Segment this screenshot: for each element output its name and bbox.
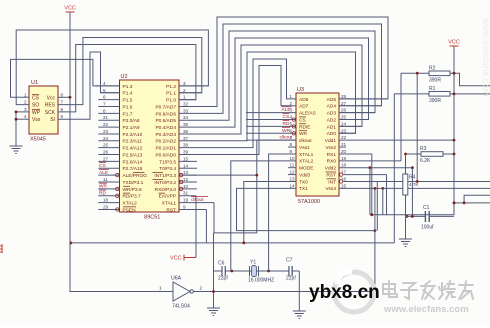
svg-text:27: 27: [341, 101, 347, 106]
IC U1 X5045 watchdog EEPROM: [29, 80, 58, 143]
svg-text:3: 3: [183, 81, 186, 86]
junction dot WP: [15, 111, 18, 114]
svg-text:Y1: Y1: [250, 260, 256, 266]
wire RST branch down: [386, 175, 388, 215]
svg-text:INT1/P3.3: INT1/P3.3: [154, 173, 176, 179]
wire P1.1 to U1 RES: [58, 38, 202, 105]
svg-text:16: 16: [341, 176, 347, 181]
power symbol VCC right: [448, 40, 460, 47]
svg-text:6.2K: 6.2K: [420, 158, 431, 164]
svg-text:21: 21: [103, 115, 109, 120]
svg-text:RD/E: RD/E: [299, 124, 310, 130]
junction dot crystal left: [230, 270, 233, 273]
svg-text:www.elecfans.com: www.elecfans.com: [383, 304, 469, 315]
svg-text:P2.4/A12: P2.4/A12: [123, 146, 143, 152]
ground below C6: [207, 302, 220, 316]
wire Vss3 vertical to ybx line: [374, 188, 376, 290]
svg-text:Vdd3: Vdd3: [299, 172, 311, 178]
svg-text:U1: U1: [31, 80, 38, 86]
svg-text:25: 25: [341, 115, 347, 120]
svg-text:Vss2: Vss2: [325, 145, 336, 151]
svg-text:Vss: Vss: [32, 117, 41, 123]
svg-text:5: 5: [61, 114, 64, 119]
wire R4 bottom to C1 line: [405, 195, 407, 216]
svg-text:33: 33: [183, 108, 189, 113]
wire P1.0 to U1 SCK: [58, 45, 196, 112]
svg-text:AD6: AD6: [299, 97, 309, 103]
svg-text:100uf: 100uf: [421, 225, 434, 231]
svg-text:1: 1: [290, 94, 293, 99]
wire INT branch down: [376, 181, 378, 230]
wire R4 stem up to R3 line: [405, 154, 407, 174]
svg-text:13: 13: [183, 170, 189, 175]
svg-text:P2.5/A13: P2.5/A13: [123, 152, 143, 158]
svg-text:26: 26: [341, 108, 347, 113]
wire AD bus line 1 to U3 AD6: [179, 59, 296, 148]
svg-text:28: 28: [341, 94, 347, 99]
svg-text:15: 15: [183, 156, 189, 161]
svg-text:3: 3: [24, 107, 27, 112]
junction dot Vss3-374: [374, 187, 377, 190]
svg-text:37: 37: [183, 136, 189, 141]
svg-text:6: 6: [103, 95, 106, 100]
svg-text:P2.6/A14: P2.6/A14: [123, 159, 143, 165]
svg-text:27: 27: [103, 156, 109, 161]
svg-text:22: 22: [103, 122, 109, 127]
svg-text:EA/VPP: EA/VPP: [159, 194, 176, 200]
watermark vertical elecfans: [480, 17, 490, 97]
svg-text:P2.7/A15: P2.7/A15: [123, 166, 143, 172]
resistor R4 4.7K: [403, 174, 420, 195]
wire R2 left vertical to RX0 row: [400, 73, 402, 161]
svg-text:CS: CS: [283, 114, 290, 120]
wire C7 ground leg: [298, 271, 300, 305]
svg-text:23: 23: [341, 128, 347, 133]
junction dot Vss: [15, 118, 18, 121]
wire AD bus line 2 from U2 P0.2 to U3: [179, 52, 356, 141]
svg-text:2: 2: [183, 88, 186, 93]
svg-text:U2: U2: [121, 74, 128, 80]
svg-text:P0.1/AD1: P0.1/AD1: [155, 146, 176, 152]
svg-text:P2.0/A8: P2.0/A8: [123, 118, 140, 124]
svg-text:TX1: TX1: [299, 186, 308, 192]
svg-text:39: 39: [183, 150, 189, 155]
svg-text:INT0/P3.2: INT0/P3.2: [154, 180, 176, 186]
wire P1.2 to U1 SO: [16, 30, 208, 105]
svg-text:WP: WP: [32, 110, 41, 116]
wire R3 vertical V417: [416, 73, 418, 181]
svg-text:WR/P3.6: WR/P3.6: [123, 187, 143, 193]
wire WP-Vss to ground: [15, 112, 17, 140]
wire VCC right rail: [370, 46, 454, 215]
svg-text:13: 13: [290, 176, 296, 181]
svg-text:P2.2/A10: P2.2/A10: [123, 132, 143, 138]
svg-text:TXD/P3.1: TXD/P3.1: [123, 180, 144, 186]
wire U1 SI to U2 P1.4: [58, 52, 120, 119]
svg-text:ALE/AS: ALE/AS: [299, 111, 316, 117]
svg-text:U3: U3: [297, 87, 304, 93]
svg-text:ALE: ALE: [282, 107, 291, 113]
svg-text:XTAL2: XTAL2: [299, 159, 314, 165]
svg-text:clkout: clkout: [191, 197, 204, 203]
capacitor C6 22pf: [218, 261, 228, 282]
wire XTAL1 of U3 down to crystal: [269, 154, 296, 271]
resistor R2 390R: [429, 66, 450, 84]
svg-text:C7: C7: [286, 258, 293, 264]
IC U2 89C51 microcontroller: [120, 74, 180, 221]
svg-text:8: 8: [103, 108, 106, 113]
net labels CS ALE WR RD on U2 left pins: [99, 163, 109, 197]
svg-text:1: 1: [183, 95, 186, 100]
svg-text:11: 11: [290, 163, 295, 168]
wire R1 right to edge: [450, 93, 490, 95]
svg-text:1: 1: [24, 92, 27, 97]
svg-text:2: 2: [24, 100, 27, 105]
svg-text:SO: SO: [32, 103, 39, 109]
crystal Y1 16.000MHZ: [248, 260, 274, 284]
wire U3 TX1 route right: [237, 188, 375, 230]
svg-text:P0.2/AD2: P0.2/AD2: [155, 139, 176, 145]
wire VCC rail vertical to inverter input: [70, 12, 173, 292]
svg-text:P2.1/A9: P2.1/A9: [123, 125, 140, 131]
U3 left pin stubs with pin numbers: [246, 94, 296, 188]
wire EA-VPP to VCC tap: [195, 196, 197, 258]
svg-text:2: 2: [200, 286, 203, 292]
svg-text:C1: C1: [423, 205, 430, 211]
power symbol VCC top-left: [64, 6, 76, 13]
svg-text:22pf: 22pf: [286, 276, 296, 282]
junction dot VCC rail at L3: [70, 242, 73, 245]
svg-text:CS: CS: [299, 117, 306, 123]
wire crystal line: [214, 270, 300, 272]
svg-text:AD5: AD5: [327, 97, 337, 103]
svg-text:2: 2: [290, 101, 293, 106]
svg-text:www.elecfans.com: www.elecfans.com: [480, 17, 490, 97]
svg-text:P1.6: P1.6: [123, 104, 133, 110]
svg-text:390R: 390R: [429, 78, 441, 84]
junction dot R4 bottom at C1 line: [406, 215, 409, 218]
svg-text:SCK: SCK: [45, 110, 56, 116]
svg-text:16.000MHZ: 16.000MHZ: [248, 278, 274, 284]
svg-text:P1.0: P1.0: [166, 98, 176, 104]
svg-text:RX0: RX0: [327, 159, 337, 165]
junction dot TX1 join: [374, 229, 377, 232]
svg-text:RST: RST: [166, 207, 176, 213]
svg-text:Vcc: Vcc: [47, 95, 56, 101]
svg-text:12: 12: [290, 170, 296, 175]
svg-text:AD7: AD7: [299, 104, 309, 110]
svg-text:PSEN: PSEN: [123, 207, 137, 213]
svg-text:5: 5: [103, 88, 106, 93]
svg-text:29: 29: [103, 204, 109, 209]
svg-text:RES: RES: [45, 103, 56, 109]
wire R2 left: [401, 72, 429, 74]
wire XTAL2 of U3 down to crystal: [231, 161, 296, 271]
junction dot Vss3 branch: [381, 187, 384, 190]
svg-text:Vdd1: Vdd1: [325, 138, 337, 144]
svg-text:ALE: ALE: [99, 170, 108, 176]
svg-text:4: 4: [103, 81, 106, 86]
svg-text:7: 7: [61, 100, 64, 105]
wire line to right edge lower: [454, 202, 490, 204]
svg-text:4: 4: [24, 114, 27, 119]
svg-text:1: 1: [159, 286, 162, 292]
svg-text:ybx8.cn: ybx8.cn: [309, 282, 380, 303]
junction dot R1 at VCC rail: [453, 93, 456, 96]
svg-text:VCC: VCC: [64, 6, 76, 12]
svg-text:P0.3/AD3: P0.3/AD3: [155, 132, 176, 138]
wire U1 CS to U2 P1.3: [11, 59, 120, 97]
power symbol VCC at EA pin: [170, 255, 196, 262]
svg-text:38: 38: [183, 143, 189, 148]
watermark elecfans url: [383, 304, 469, 315]
resistor R3 6.2K: [420, 146, 443, 164]
svg-text:P1.1: P1.1: [166, 91, 176, 97]
wire clkout from U3 to U2 XTAL1: [214, 140, 296, 233]
junction dot step: [463, 202, 466, 205]
junction dot C1 at VCC rail: [453, 202, 456, 205]
svg-text:6: 6: [61, 107, 64, 112]
svg-text:P1.3: P1.3: [123, 84, 133, 90]
svg-text:CS: CS: [99, 163, 106, 169]
junction dot U1 Vcc: [69, 96, 72, 99]
wire R2 right with step to edge: [450, 73, 490, 86]
svg-text:18: 18: [103, 198, 109, 203]
pin number 2 inverter output: [200, 286, 203, 292]
svg-text:TX0: TX0: [299, 179, 308, 185]
svg-text:R1: R1: [429, 86, 436, 92]
svg-text:P1.4: P1.4: [123, 91, 133, 97]
wire RX1 vertical: [371, 154, 373, 215]
svg-text:57A1000: 57A1000: [298, 199, 320, 205]
svg-text:31: 31: [183, 191, 189, 196]
svg-text:P0.6/AD6: P0.6/AD6: [155, 111, 176, 117]
svg-text:Vdd2: Vdd2: [325, 166, 337, 172]
svg-text:10: 10: [290, 156, 296, 161]
svg-text:XTAL1: XTAL1: [299, 152, 314, 158]
watermark ybx8.cn: [309, 282, 380, 303]
svg-text:89C51: 89C51: [144, 215, 160, 221]
svg-text:23: 23: [103, 129, 109, 134]
watermark chinese text: [383, 281, 473, 299]
resistor R1 390R: [429, 86, 450, 104]
net labels ALE CS RD WR clkout on U3 left pins: [280, 107, 293, 141]
pin number 1 inverter input: [159, 286, 162, 292]
junction dot Vdd2 line: [369, 166, 372, 169]
capacitor C7 22pf: [286, 258, 296, 282]
wire U1 Vcc pin8 stub: [58, 96, 70, 98]
svg-text:24: 24: [341, 121, 347, 126]
svg-text:WR: WR: [99, 184, 108, 190]
wire AD bus line 7 from U2 P0.7 to U3: [179, 17, 388, 106]
svg-text:9: 9: [183, 204, 186, 209]
svg-text:P0.5/AD5: P0.5/AD5: [155, 118, 176, 124]
wire C6 ground leg: [213, 233, 215, 302]
svg-text:Vss3: Vss3: [325, 186, 336, 192]
wire AD bus line 4 from U2 P0.4 to U3: [179, 38, 369, 127]
svg-text:RD: RD: [99, 191, 106, 197]
svg-text:RD: RD: [283, 121, 290, 127]
svg-text:19: 19: [183, 198, 189, 203]
svg-text:7: 7: [103, 101, 106, 106]
junction dot R2-V417: [416, 72, 419, 75]
junction dot R2 at VCC rail: [453, 72, 456, 75]
watermark partial red glyph left edge: [0, 244, 3, 253]
watermark swirl logo: [334, 272, 374, 312]
wire AD bus line 0 to U3 AD7: [179, 66, 296, 155]
svg-text:Vss1: Vss1: [299, 145, 310, 151]
svg-text:XTAL2: XTAL2: [123, 200, 138, 206]
U2 right pin stubs with pin numbers: [179, 81, 214, 210]
svg-text:25: 25: [103, 143, 109, 148]
wire U1 WP stub: [16, 111, 29, 113]
junction dot link left: [370, 213, 373, 216]
svg-text:74LS04: 74LS04: [172, 304, 190, 310]
junction dot lower line: [453, 202, 456, 205]
svg-text:22: 22: [341, 135, 347, 140]
IC U3 57A1000 ethernet controller: [296, 87, 339, 205]
svg-text:U6A: U6A: [171, 276, 182, 282]
svg-text:AD4: AD4: [327, 104, 337, 110]
svg-text:AD2: AD2: [327, 117, 337, 123]
svg-text:AD0: AD0: [327, 131, 337, 137]
svg-text:12: 12: [183, 177, 189, 182]
svg-text:WR: WR: [299, 131, 308, 137]
svg-text:32: 32: [183, 101, 189, 106]
wire Vss3 branch down: [382, 188, 384, 214]
U1 pin numbers: [24, 92, 64, 119]
svg-text:11: 11: [103, 177, 108, 182]
wire v412 to C1 line: [411, 168, 413, 217]
wire R1 left vertical: [393, 94, 395, 243]
ground below U1: [10, 140, 23, 154]
svg-text:8: 8: [290, 142, 293, 147]
U3 right pin stubs with pin numbers: [339, 94, 490, 188]
wire U1 Vss stub: [16, 118, 29, 120]
wire C1 line to ground: [405, 216, 407, 233]
junction dot output at C6 ground leg: [212, 290, 215, 293]
svg-text:XTAL1: XTAL1: [162, 200, 177, 206]
svg-text:VCC: VCC: [170, 256, 182, 262]
wire AD bus line 3 from U2 P0.3 to U3: [179, 45, 362, 134]
wire AD bus line 5 from U2 P0.5 to U3: [179, 31, 375, 120]
svg-text:R3: R3: [420, 146, 427, 152]
svg-text:RST: RST: [326, 172, 336, 178]
svg-text:14: 14: [290, 183, 296, 188]
junction dot crystal right: [267, 270, 270, 273]
svg-text:P1.2: P1.2: [166, 84, 176, 90]
svg-text:10: 10: [183, 184, 189, 189]
junction dot R3 at VCC rail: [453, 153, 456, 156]
svg-text:24: 24: [103, 136, 109, 141]
svg-text:P0.7/AD7: P0.7/AD7: [155, 104, 176, 110]
svg-text:T1/P3.5: T1/P3.5: [159, 159, 176, 165]
svg-text:34: 34: [183, 115, 189, 120]
svg-text:390R: 390R: [429, 98, 441, 104]
svg-text:VCC: VCC: [448, 40, 460, 46]
inverter U6A 74LS04: [171, 276, 193, 310]
svg-text:22pf: 22pf: [218, 276, 228, 282]
svg-text:20: 20: [341, 149, 347, 154]
svg-text:X5045: X5045: [30, 137, 46, 143]
wire R1 left: [394, 93, 429, 95]
junction dot Vdd1 at VCC rail: [453, 139, 456, 142]
wire U3 TX0 down to L3: [244, 181, 296, 242]
svg-text:8: 8: [61, 92, 64, 97]
svg-text:P1.5: P1.5: [123, 98, 133, 104]
svg-text:26: 26: [103, 150, 109, 155]
svg-text:T0/P3.4: T0/P3.4: [159, 166, 176, 172]
wire R3 right: [443, 153, 454, 155]
svg-text:36: 36: [183, 129, 189, 134]
svg-text:14: 14: [183, 163, 189, 168]
junction dot v412 bottom: [411, 215, 414, 218]
ground below C1 line: [399, 233, 412, 247]
svg-text:AD3: AD3: [327, 111, 337, 117]
svg-text:RD/P3.7: RD/P3.7: [123, 194, 141, 200]
svg-text:18: 18: [341, 163, 347, 168]
svg-text:17: 17: [341, 170, 347, 175]
svg-text:9: 9: [290, 149, 293, 154]
wire INT1 line U2 to clkout vertical: [184, 174, 257, 176]
svg-text:RX1: RX1: [327, 152, 337, 158]
wire L3 horizontal: [71, 242, 394, 244]
wire INT line to right edge already part of stub: [416, 180, 419, 183]
wire Vdd2 branch down: [369, 168, 371, 215]
svg-text:P0.4/AD4: P0.4/AD4: [155, 125, 176, 131]
junction dot Vdd2 line at 412: [411, 166, 414, 169]
wire inverter output line: [193, 291, 375, 293]
svg-text:C6: C6: [218, 261, 225, 267]
capacitor C1 100uf: [406, 205, 435, 231]
svg-text:WR: WR: [282, 128, 291, 134]
svg-text:P1.7: P1.7: [123, 111, 133, 117]
svg-text:R2: R2: [429, 66, 436, 72]
junction dot TX0-L3: [242, 242, 245, 245]
svg-text:21: 21: [341, 142, 347, 147]
svg-text:CS: CS: [32, 95, 40, 101]
svg-text:P0.0/AD0: P0.0/AD0: [155, 152, 176, 158]
U2 left pin stubs with pin numbers: [96, 81, 120, 211]
svg-text:P2.3/A11: P2.3/A11: [123, 139, 143, 145]
svg-text:INT: INT: [328, 179, 336, 185]
svg-text:ALE/PROG: ALE/PROG: [123, 173, 148, 179]
svg-text:MODE: MODE: [299, 166, 313, 172]
svg-text:AD1: AD1: [327, 124, 337, 130]
wire AD bus line 6 from U2 P0.6 to U3: [179, 24, 382, 113]
svg-text:clkout: clkout: [299, 138, 312, 144]
net label clkout at U2 XTAL1 pin: [191, 197, 208, 203]
svg-text:SI: SI: [50, 117, 55, 123]
svg-text:15: 15: [341, 183, 347, 188]
ground below C7: [293, 305, 306, 319]
wire R3 left: [406, 153, 422, 155]
wire C1 right to rail: [430, 215, 454, 217]
wire step to right edge upper: [464, 195, 490, 203]
svg-text:35: 35: [183, 122, 189, 127]
junction dot INT1-clkout: [255, 174, 258, 177]
svg-text:19: 19: [341, 156, 347, 161]
wire U2 RST to L3: [205, 209, 207, 243]
junction dot R3 left at R4 stem: [404, 153, 407, 156]
svg-text:RXD/P3.0: RXD/P3.0: [155, 187, 177, 193]
